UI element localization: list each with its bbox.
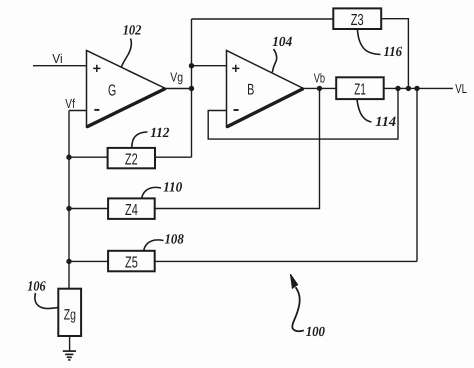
ground (63, 351, 76, 360)
svg-text:Vi: Vi (52, 51, 62, 66)
wire B feedback loop (208, 88, 398, 139)
svg-text:Vg: Vg (170, 70, 183, 85)
wire G output to Vg node (166, 88, 192, 90)
svg-text:G: G (108, 83, 116, 100)
label 106 leader (35, 293, 58, 309)
wire Vi input (33, 65, 87, 67)
impedance Zg (58, 289, 81, 336)
impedance Z4 (108, 198, 155, 219)
wire Z1 to VL (384, 87, 453, 89)
label 114 leader (357, 100, 372, 123)
arrow 100 (290, 274, 303, 331)
svg-text:116: 116 (384, 45, 403, 60)
wire Vb branch down to Z4 (155, 88, 320, 208)
label 112 leader (132, 132, 148, 148)
svg-text:100: 100 (306, 325, 325, 340)
junction dot B plus branch (189, 63, 194, 68)
svg-text:110: 110 (163, 181, 182, 196)
impedance Z3 (333, 8, 381, 29)
label 104 leader (272, 49, 276, 72)
junction dot rail Z2 (66, 155, 71, 160)
impedance Z1 (336, 77, 384, 99)
wire Vg vertical (191, 19, 193, 157)
svg-text:Vf: Vf (65, 96, 75, 111)
junction dot rail Z5 (66, 259, 71, 264)
svg-text:108: 108 (165, 232, 184, 247)
wire Z2 right (155, 156, 192, 158)
op-amp G (87, 51, 166, 128)
junction dot Vb (317, 86, 322, 91)
impedance Z5 (108, 251, 155, 272)
label 102 leader (121, 39, 131, 68)
junction dot Z5 branch (414, 86, 419, 91)
wire Zg to ground (69, 336, 71, 351)
svg-text:102: 102 (123, 24, 142, 39)
svg-text:Zg: Zg (64, 306, 76, 323)
svg-text:104: 104 (272, 35, 292, 50)
junction dot rail Z4 (66, 206, 71, 211)
junction dot Vg output (189, 86, 194, 91)
svg-text:Z2: Z2 (125, 152, 138, 169)
svg-text:112: 112 (150, 126, 169, 141)
wire Z4 left (69, 208, 108, 210)
wire Z5 right (155, 260, 417, 262)
junction dot Z3 branch (406, 86, 411, 91)
label 110 leader (142, 187, 161, 198)
wire Z3 output down (381, 19, 408, 89)
svg-text:Z4: Z4 (125, 202, 138, 219)
wire top to Z3 (192, 18, 334, 20)
op-amp B (227, 51, 304, 128)
svg-text:Z1: Z1 (354, 81, 366, 98)
wire B output to Vb node (304, 87, 337, 89)
wire Z5 branch down (416, 88, 418, 261)
label 116 leader (358, 30, 381, 55)
svg-text:Z3: Z3 (351, 12, 364, 29)
svg-text:Z5: Z5 (125, 254, 138, 271)
svg-text:Vb: Vb (314, 71, 325, 86)
wire Z5 left (69, 260, 108, 262)
svg-text:114: 114 (375, 115, 396, 130)
svg-text:106: 106 (27, 279, 46, 294)
wire Z2 left (69, 156, 108, 158)
svg-text:VL: VL (455, 81, 467, 96)
wire left rail (68, 111, 70, 289)
wire to B non-inverting input (192, 65, 227, 67)
wire Vf to G inverting input (69, 110, 87, 112)
svg-text:B: B (247, 81, 254, 98)
junction dot feedback (395, 86, 400, 91)
impedance Z2 (108, 148, 155, 169)
label 108 leader (144, 240, 164, 251)
